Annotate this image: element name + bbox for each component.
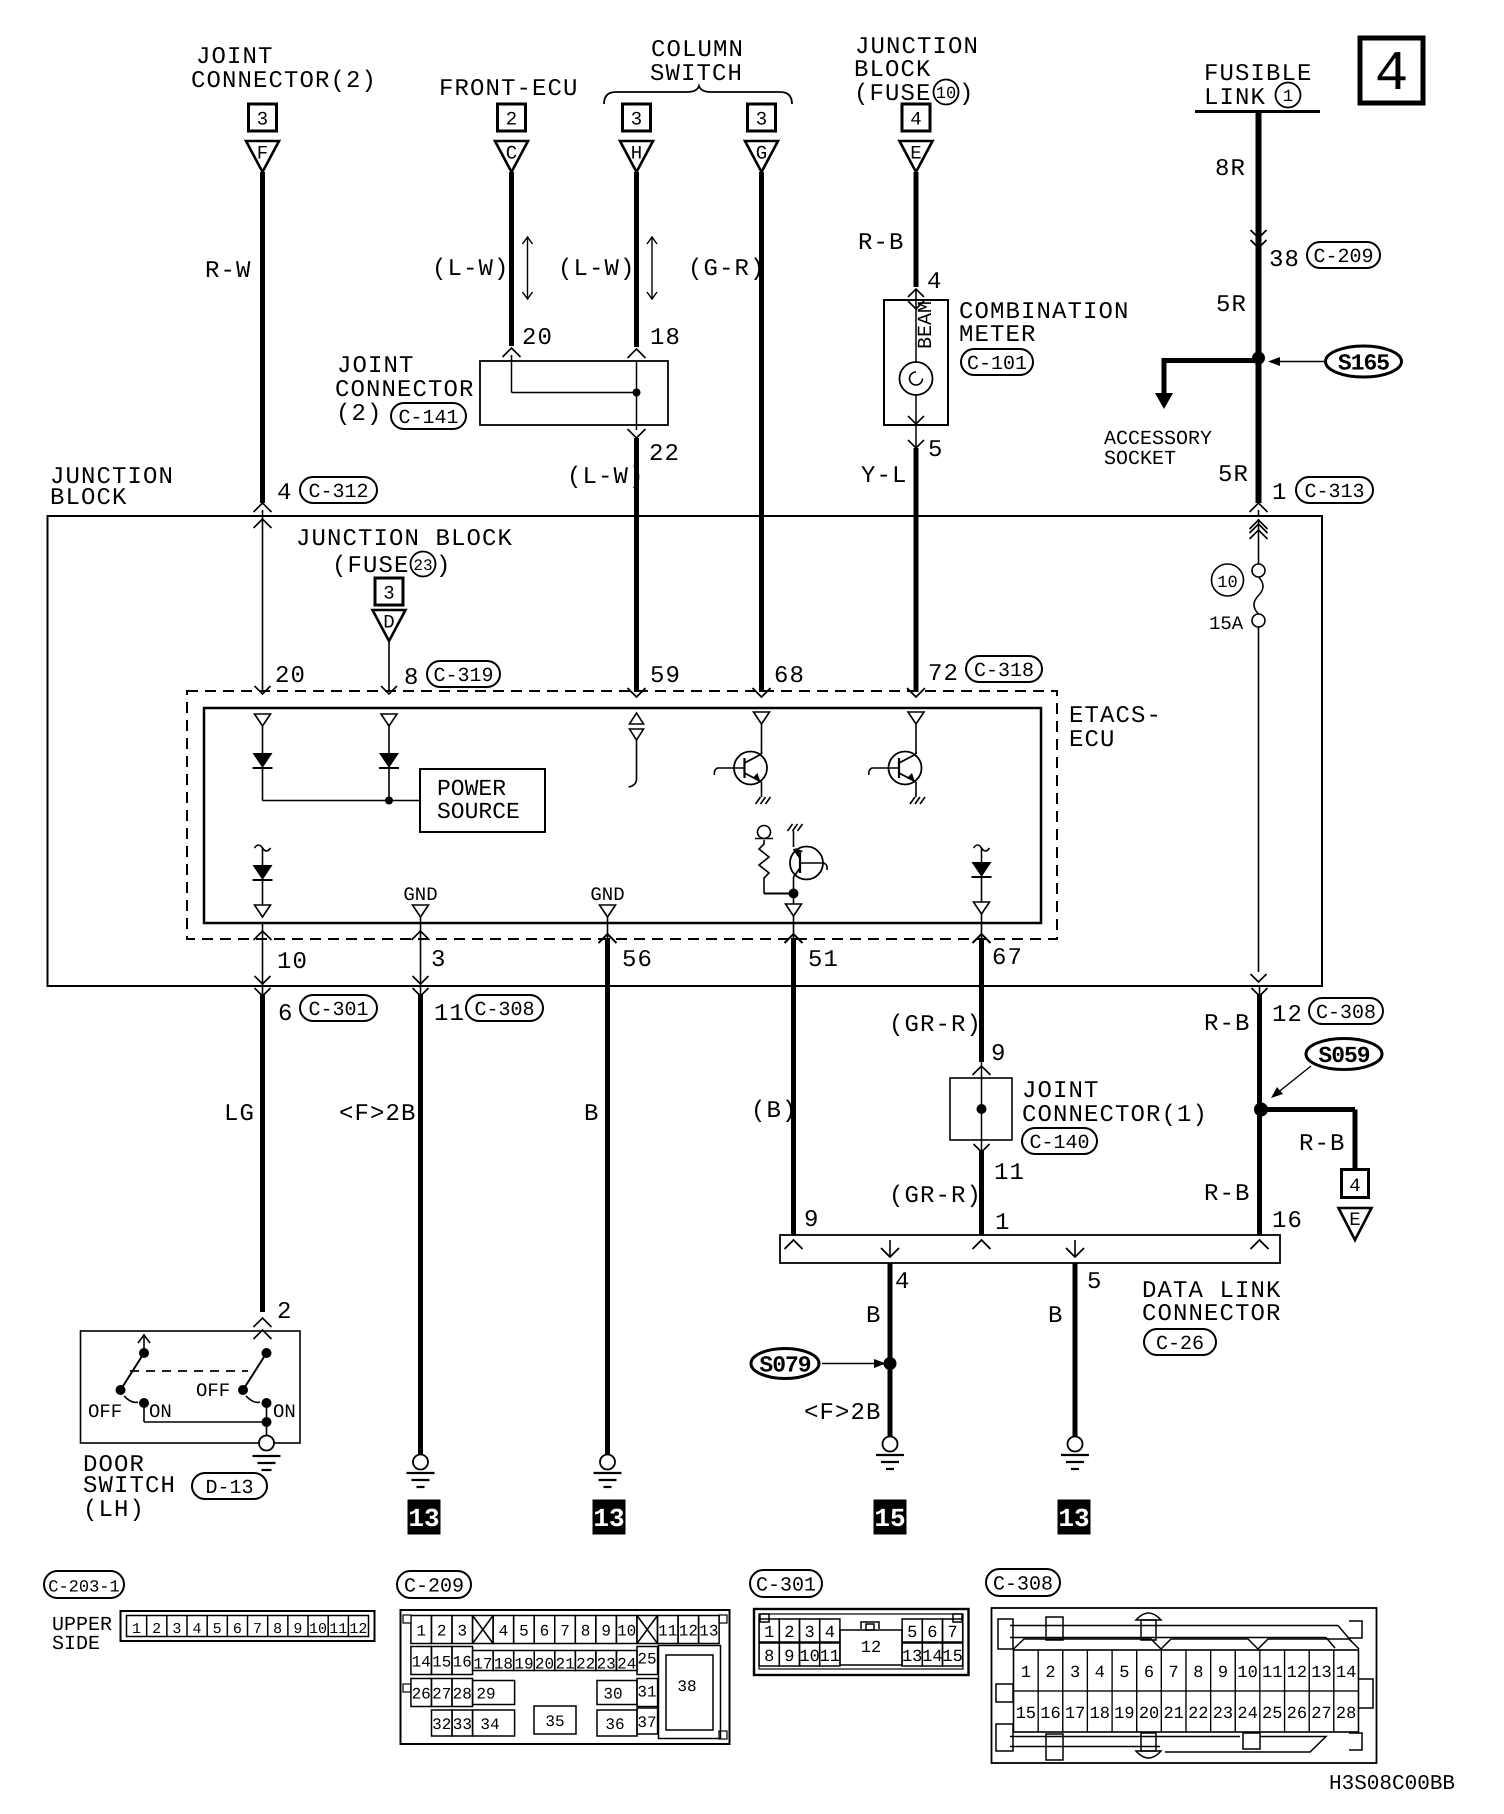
svg-text:(B): (B) <box>751 1098 798 1125</box>
svg-text:S165: S165 <box>1338 351 1389 377</box>
svg-text:27: 27 <box>432 1686 451 1704</box>
svg-text:35: 35 <box>545 1713 564 1731</box>
svg-text:20: 20 <box>275 663 306 690</box>
svg-text:C-312: C-312 <box>308 481 368 504</box>
svg-text:9: 9 <box>784 1648 794 1667</box>
svg-text:12: 12 <box>861 1639 881 1658</box>
svg-text:9: 9 <box>804 1207 818 1234</box>
svg-text:1: 1 <box>1021 1664 1031 1683</box>
svg-text:9: 9 <box>293 1621 302 1638</box>
svg-text:5R: 5R <box>1218 462 1249 489</box>
svg-text:9: 9 <box>1218 1664 1228 1683</box>
svg-text:7: 7 <box>253 1621 262 1638</box>
svg-text:21: 21 <box>1163 1705 1183 1724</box>
svg-text:C-308: C-308 <box>993 1574 1053 1597</box>
svg-text:16: 16 <box>1272 1208 1303 1235</box>
svg-text:28: 28 <box>1336 1705 1356 1724</box>
svg-text:6: 6 <box>278 1001 292 1028</box>
svg-text:13: 13 <box>408 1504 439 1534</box>
svg-text:37: 37 <box>637 1714 656 1732</box>
svg-text:33: 33 <box>453 1716 472 1734</box>
svg-text:7: 7 <box>947 1624 957 1643</box>
svg-text:32: 32 <box>432 1716 451 1734</box>
svg-text:27: 27 <box>1311 1705 1331 1724</box>
svg-text:ON: ON <box>273 1401 296 1423</box>
svg-text:R-B: R-B <box>1204 1011 1251 1038</box>
svg-text:2: 2 <box>437 1623 447 1641</box>
svg-text:28: 28 <box>453 1686 472 1704</box>
svg-text:C-101: C-101 <box>967 353 1027 376</box>
svg-text:29: 29 <box>476 1686 495 1704</box>
svg-text:5: 5 <box>928 437 942 464</box>
svg-text:4: 4 <box>1375 42 1409 106</box>
svg-text:15A: 15A <box>1209 613 1244 635</box>
svg-text:6: 6 <box>927 1624 937 1643</box>
svg-text:G: G <box>756 143 767 165</box>
svg-text:C-209: C-209 <box>404 1576 464 1599</box>
svg-text:6: 6 <box>233 1621 242 1638</box>
svg-text:12: 12 <box>349 1621 367 1638</box>
svg-text:19: 19 <box>1114 1705 1134 1724</box>
svg-text:34: 34 <box>480 1716 499 1734</box>
svg-text:30: 30 <box>603 1686 622 1704</box>
svg-text:4: 4 <box>1349 1175 1360 1197</box>
svg-text:14: 14 <box>922 1648 942 1667</box>
svg-text:59: 59 <box>650 663 681 690</box>
svg-text:(L-W): (L-W) <box>567 464 645 491</box>
svg-text:9: 9 <box>991 1041 1005 1068</box>
svg-text:BEAM: BEAM <box>915 301 938 349</box>
svg-text:(GR-R): (GR-R) <box>889 1183 982 1210</box>
svg-text:1: 1 <box>1283 88 1293 107</box>
svg-text:3: 3 <box>756 109 767 131</box>
svg-text:2: 2 <box>506 109 517 131</box>
svg-text:22: 22 <box>1188 1705 1208 1724</box>
svg-text:21: 21 <box>555 1656 574 1674</box>
svg-text:C-26: C-26 <box>1156 1333 1204 1356</box>
svg-text:B: B <box>866 1303 880 1330</box>
svg-text:51: 51 <box>808 947 839 974</box>
svg-text:C-313: C-313 <box>1304 481 1364 504</box>
svg-text:(LH): (LH) <box>83 1497 145 1524</box>
svg-text:7: 7 <box>560 1623 570 1641</box>
svg-text:13: 13 <box>593 1504 624 1534</box>
svg-text:25: 25 <box>1262 1705 1282 1724</box>
svg-text:CONNECTOR: CONNECTOR <box>335 377 475 404</box>
svg-text:14: 14 <box>412 1654 431 1672</box>
svg-text:26: 26 <box>412 1686 431 1704</box>
svg-text:15: 15 <box>1016 1705 1036 1724</box>
svg-text:5: 5 <box>1087 1269 1101 1296</box>
svg-text:4: 4 <box>895 1269 909 1296</box>
svg-text:D: D <box>383 612 394 634</box>
svg-text:17: 17 <box>1065 1705 1085 1724</box>
svg-text:1: 1 <box>416 1623 426 1641</box>
svg-text:5: 5 <box>213 1621 222 1638</box>
svg-text:16: 16 <box>453 1654 472 1672</box>
svg-text:3: 3 <box>804 1624 814 1643</box>
svg-text:R-B: R-B <box>858 230 905 257</box>
svg-text:11: 11 <box>434 1001 465 1028</box>
svg-text:4: 4 <box>193 1621 202 1638</box>
svg-text:15: 15 <box>432 1654 451 1672</box>
svg-text:2: 2 <box>784 1624 794 1643</box>
svg-text:10: 10 <box>1237 1664 1257 1683</box>
svg-text:10: 10 <box>1217 574 1237 593</box>
svg-text:LG: LG <box>224 1101 255 1128</box>
svg-text:): ) <box>959 81 973 108</box>
svg-text:3: 3 <box>457 1623 467 1641</box>
svg-text:17: 17 <box>473 1656 492 1674</box>
svg-text:20: 20 <box>1139 1705 1159 1724</box>
svg-text:10: 10 <box>799 1648 819 1667</box>
svg-text:31: 31 <box>637 1684 656 1702</box>
svg-text:FRONT-ECU: FRONT-ECU <box>439 76 579 103</box>
svg-text:3: 3 <box>1070 1664 1080 1683</box>
svg-text:1: 1 <box>1272 480 1286 507</box>
svg-text:B: B <box>1048 1303 1062 1330</box>
svg-text:1: 1 <box>995 1210 1009 1237</box>
svg-text:C: C <box>506 143 517 165</box>
svg-text:S079: S079 <box>759 1353 810 1379</box>
svg-text:METER: METER <box>959 322 1037 349</box>
svg-text:SIDE: SIDE <box>52 1633 100 1656</box>
svg-text:5: 5 <box>519 1623 529 1641</box>
svg-text:38: 38 <box>1269 247 1300 274</box>
svg-text:20: 20 <box>522 325 553 352</box>
svg-text:H: H <box>631 143 642 165</box>
svg-text:18: 18 <box>1090 1705 1110 1724</box>
svg-text:JOINT: JOINT <box>337 353 415 380</box>
svg-text:3: 3 <box>257 109 268 131</box>
svg-text:F: F <box>257 143 268 165</box>
svg-text:C-140: C-140 <box>1029 1132 1089 1155</box>
svg-text:11: 11 <box>994 1160 1025 1187</box>
svg-text:3: 3 <box>631 109 642 131</box>
svg-text:19: 19 <box>514 1656 533 1674</box>
svg-text:25: 25 <box>637 1651 656 1669</box>
svg-text:C-209: C-209 <box>1313 246 1373 269</box>
svg-text:5: 5 <box>1119 1664 1129 1683</box>
svg-text:SOURCE: SOURCE <box>437 799 520 825</box>
svg-text:36: 36 <box>605 1716 624 1734</box>
svg-text:72: 72 <box>928 661 959 688</box>
svg-text:C-319: C-319 <box>433 665 493 688</box>
svg-text:4: 4 <box>927 269 941 296</box>
svg-text:8: 8 <box>404 665 418 692</box>
svg-text:H3S08C00BB: H3S08C00BB <box>1329 1773 1455 1796</box>
svg-text:(GR-R): (GR-R) <box>889 1012 982 1039</box>
svg-text:13: 13 <box>1311 1664 1331 1683</box>
svg-text:JOINT: JOINT <box>1022 1078 1100 1105</box>
svg-text:13: 13 <box>902 1648 922 1667</box>
svg-text:6: 6 <box>540 1623 550 1641</box>
svg-text:D-13: D-13 <box>205 1477 253 1500</box>
svg-text:4: 4 <box>277 480 291 507</box>
svg-text:10: 10 <box>936 85 956 104</box>
svg-text:4: 4 <box>499 1623 509 1641</box>
svg-text:24: 24 <box>1237 1705 1257 1724</box>
svg-text:(G-R): (G-R) <box>688 256 766 283</box>
svg-text:(FUSE: (FUSE <box>332 553 410 580</box>
svg-text:12: 12 <box>1287 1664 1307 1683</box>
svg-text:38: 38 <box>677 1678 696 1696</box>
svg-text:Y-L: Y-L <box>861 463 908 490</box>
svg-text:S059: S059 <box>1318 1043 1369 1069</box>
svg-text:23: 23 <box>597 1656 616 1674</box>
svg-text:18: 18 <box>650 325 681 352</box>
svg-text:5R: 5R <box>1216 292 1247 319</box>
svg-text:C-301: C-301 <box>308 999 368 1022</box>
svg-text:ETACS-: ETACS- <box>1069 703 1162 730</box>
svg-text:18: 18 <box>494 1656 513 1674</box>
svg-text:8: 8 <box>273 1621 282 1638</box>
svg-text:SWITCH: SWITCH <box>83 1473 176 1500</box>
svg-text:23: 23 <box>413 557 432 575</box>
svg-text:): ) <box>436 553 450 580</box>
svg-text:OFF: OFF <box>88 1401 122 1423</box>
svg-text:15: 15 <box>942 1648 962 1667</box>
svg-text:C-203-1: C-203-1 <box>48 1579 119 1598</box>
svg-text:<F>2B: <F>2B <box>804 1400 882 1427</box>
svg-text:R-B: R-B <box>1204 1181 1251 1208</box>
svg-text:3: 3 <box>172 1621 181 1638</box>
svg-text:22: 22 <box>576 1656 595 1674</box>
svg-text:23: 23 <box>1213 1705 1233 1724</box>
svg-text:CONNECTOR(1): CONNECTOR(1) <box>1022 1102 1208 1129</box>
svg-text:12: 12 <box>1272 1002 1303 1029</box>
svg-text:7: 7 <box>1169 1664 1179 1683</box>
svg-text:8R: 8R <box>1215 156 1246 183</box>
svg-text:(L-W): (L-W) <box>432 256 510 283</box>
svg-text:GND: GND <box>403 884 437 906</box>
svg-text:2: 2 <box>152 1621 161 1638</box>
svg-text:CONNECTOR: CONNECTOR <box>1142 1301 1282 1328</box>
svg-text:20: 20 <box>535 1656 554 1674</box>
svg-text:4: 4 <box>1095 1664 1105 1683</box>
svg-text:11: 11 <box>658 1623 677 1641</box>
svg-text:56: 56 <box>622 947 653 974</box>
svg-text:COLUMN: COLUMN <box>651 37 744 64</box>
svg-text:OFF: OFF <box>196 1380 230 1402</box>
svg-text:C-308: C-308 <box>1316 1002 1376 1025</box>
svg-text:SOCKET: SOCKET <box>1104 448 1176 471</box>
svg-text:10: 10 <box>617 1623 636 1641</box>
svg-text:8: 8 <box>1193 1664 1203 1683</box>
svg-text:FUSIBLE: FUSIBLE <box>1204 61 1313 88</box>
svg-text:5: 5 <box>907 1624 917 1643</box>
svg-text:<F>2B: <F>2B <box>339 1101 417 1128</box>
svg-text:3: 3 <box>431 947 445 974</box>
svg-text:10: 10 <box>277 949 308 976</box>
svg-text:ON: ON <box>149 1401 172 1423</box>
svg-text:26: 26 <box>1287 1705 1307 1724</box>
svg-text:2: 2 <box>1045 1664 1055 1683</box>
svg-text:67: 67 <box>992 945 1023 972</box>
svg-text:GND: GND <box>590 884 624 906</box>
svg-text:11: 11 <box>820 1648 840 1667</box>
svg-text:6: 6 <box>1144 1664 1154 1683</box>
svg-text:14: 14 <box>1336 1664 1356 1683</box>
svg-text:8: 8 <box>581 1623 591 1641</box>
svg-text:LINK: LINK <box>1204 85 1266 112</box>
svg-text:24: 24 <box>617 1656 636 1674</box>
svg-text:1: 1 <box>764 1624 774 1643</box>
svg-text:E: E <box>910 143 921 165</box>
svg-text:JOINT: JOINT <box>196 44 274 71</box>
svg-text:BLOCK: BLOCK <box>854 57 932 84</box>
svg-text:13: 13 <box>1058 1504 1089 1534</box>
svg-text:11: 11 <box>329 1621 347 1638</box>
svg-text:11: 11 <box>1262 1664 1282 1683</box>
svg-text:8: 8 <box>764 1648 774 1667</box>
svg-text:ECU: ECU <box>1069 727 1116 754</box>
svg-text:SWITCH: SWITCH <box>650 61 743 88</box>
svg-text:R-W: R-W <box>205 258 252 285</box>
svg-text:15: 15 <box>874 1504 905 1534</box>
svg-text:(L-W): (L-W) <box>558 256 636 283</box>
svg-text:BLOCK: BLOCK <box>50 485 128 512</box>
svg-text:C-301: C-301 <box>756 1575 816 1598</box>
svg-text:12: 12 <box>679 1623 698 1641</box>
svg-text:2: 2 <box>277 1299 291 1326</box>
svg-text:10: 10 <box>309 1621 327 1638</box>
svg-text:C-308: C-308 <box>474 999 534 1022</box>
svg-text:1: 1 <box>132 1621 141 1638</box>
svg-text:4: 4 <box>825 1624 835 1643</box>
svg-text:C-141: C-141 <box>398 407 458 430</box>
svg-text:R-B: R-B <box>1299 1131 1346 1158</box>
svg-text:4: 4 <box>910 109 921 131</box>
svg-text:22: 22 <box>649 441 680 468</box>
svg-text:16: 16 <box>1040 1705 1060 1724</box>
svg-text:68: 68 <box>774 663 805 690</box>
svg-text:B: B <box>584 1101 598 1128</box>
svg-text:E: E <box>1349 1209 1360 1231</box>
svg-text:9: 9 <box>601 1623 611 1641</box>
svg-text:JUNCTION BLOCK: JUNCTION BLOCK <box>296 526 513 553</box>
svg-text:C-318: C-318 <box>974 660 1034 683</box>
svg-text:(2): (2) <box>336 401 383 428</box>
svg-text:CONNECTOR(2): CONNECTOR(2) <box>191 68 377 95</box>
svg-text:13: 13 <box>699 1623 718 1641</box>
svg-text:3: 3 <box>383 583 394 605</box>
